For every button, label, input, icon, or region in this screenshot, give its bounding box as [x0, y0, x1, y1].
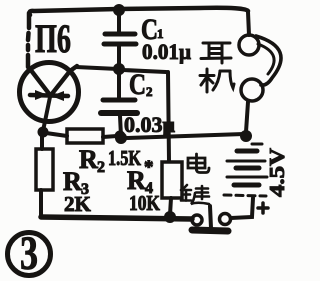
capacitor C2 plate bottom: [101, 110, 137, 116]
svg-text:C: C: [129, 68, 146, 101]
wire battery top to headphone: [246, 102, 248, 132]
battery plate 6 dashed: [224, 195, 266, 196]
wire node A right: [123, 70, 166, 72]
node dot base junction: [38, 127, 49, 138]
transistor base bar: [30, 95, 68, 96]
transistor collector diagonal: [51, 66, 77, 95]
transistor arrow right: [51, 91, 64, 101]
wire left emitter lead: [28, 13, 29, 67]
battery B1 node dot top: [240, 130, 252, 142]
label minus: [252, 143, 262, 146]
capacitor C2 plate top: [103, 98, 135, 103]
label 机 (ji): [200, 69, 234, 92]
node top junction: [113, 4, 125, 16]
node dot R4 bottom: [164, 211, 176, 223]
capacitor C1 plate top: [105, 32, 135, 37]
resistor R2 lead right: [103, 136, 117, 137]
capacitor C2 lead bottom: [120, 116, 121, 136]
wire bottom rail: [41, 217, 192, 219]
transistor arrow left: [35, 90, 48, 100]
svg-text:4.5V: 4.5V: [265, 148, 289, 197]
key S contact right circle: [220, 214, 231, 225]
svg-text:2: 2: [146, 84, 153, 99]
key S lever: [210, 206, 211, 228]
key S contact left circle: [192, 215, 202, 225]
key ground bar: [192, 230, 228, 231]
resistor R4 lead bottom: [170, 198, 171, 215]
capacitor C2 lead top: [117, 72, 121, 98]
label 电 (dian): [188, 154, 209, 173]
svg-text:*: *: [144, 157, 154, 178]
node A dot: [113, 63, 125, 75]
battery plate 3 short: [236, 166, 259, 171]
label plus: [258, 203, 268, 213]
wire node A down to R4: [168, 72, 169, 161]
capacitor C1 plate bottom: [104, 42, 136, 47]
battery plate 5 short: [234, 183, 259, 188]
resistor R3 lead bottom: [39, 190, 43, 216]
svg-text:2K: 2K: [64, 192, 92, 216]
wire top rail: [30, 8, 249, 15]
capacitor C1 lead bottom: [117, 46, 121, 66]
svg-text:3: 3: [20, 227, 38, 280]
transistor base down lead: [43, 97, 50, 131]
node dot C2 bottom: [115, 132, 127, 144]
headphone earpiece top: [239, 35, 259, 55]
label 键 (jian): [181, 185, 209, 204]
battery plate 1 short: [237, 149, 257, 154]
wire node B to battery: [126, 134, 244, 138]
battery plate 2 long: [227, 160, 265, 163]
wire top rail to headphone: [248, 12, 249, 35]
figure number 3 circle: [8, 233, 51, 276]
headphone earpiece bottom: [241, 79, 263, 101]
battery plate 4 long: [227, 176, 267, 179]
transistor emitter diagonal: [30, 69, 50, 95]
svg-text:П6: П6: [35, 16, 71, 61]
transistor Q1 circle: [20, 63, 79, 122]
resistor R3 body: [36, 149, 53, 190]
label 耳 (er): [201, 43, 231, 63]
svg-text:0.01μ: 0.01μ: [142, 39, 191, 64]
capacitor C1 lead top: [117, 13, 121, 32]
resistor R2 body: [67, 129, 103, 143]
resistor R2 lead left: [46, 133, 67, 136]
node dot R2 right: [115, 131, 126, 142]
resistor R4 body: [162, 162, 182, 198]
svg-text:0.03μ: 0.03μ: [124, 112, 176, 137]
wire key to battery plus: [231, 198, 253, 218]
resistor R3 lead top: [40, 134, 44, 149]
svg-text:10K: 10K: [129, 191, 161, 215]
svg-text:R: R: [79, 145, 98, 174]
svg-text:2: 2: [97, 159, 105, 176]
wire collector to node A: [76, 67, 118, 69]
headphone band arc: [256, 36, 281, 85]
